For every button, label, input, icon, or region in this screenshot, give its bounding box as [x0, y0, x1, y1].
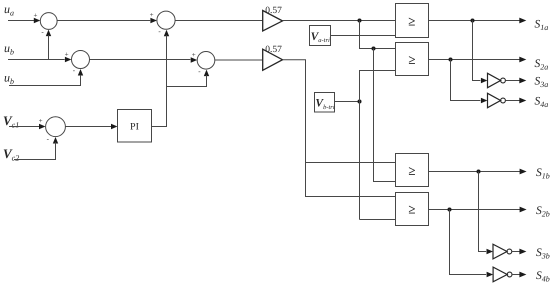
wire PI output branch to summer A4 [167, 75, 207, 86]
junction dot node ref-a2 [372, 47, 376, 51]
arrow to S_4a [519, 98, 526, 104]
summing junction A5 [46, 117, 66, 137]
svg-text:0.57: 0.57 [265, 45, 282, 55]
arrow into inverter N3 [487, 249, 494, 254]
svg-text:S1b: S1b [536, 167, 550, 181]
arrow into summer A5 bottom [53, 137, 58, 144]
svg-text:ub: ub [4, 71, 14, 87]
PI controller block U5 [118, 110, 152, 143]
svg-text:-: - [41, 28, 44, 36]
gain amplifier G2 value 0.57 [263, 49, 283, 70]
summing junction A1 [40, 13, 57, 30]
arrow to S_3a [519, 78, 526, 84]
wire U4 output S_2b [429, 209, 521, 211]
junction dot node ref-a [358, 19, 362, 23]
junction dot on S_2a line [449, 58, 453, 62]
wire summer A1 to summer A3 [57, 20, 150, 22]
wire summer A3 to gain G1 [175, 20, 263, 22]
arrow into inverter N2 [481, 98, 488, 103]
wire N2 output S_4a [505, 100, 519, 102]
svg-text:-: - [158, 28, 161, 36]
arrow to S_1b [520, 169, 527, 175]
inverter N3 bubble [507, 249, 512, 254]
junction dot on S_2b line [448, 208, 452, 212]
junction dot on S_1b line [477, 170, 481, 174]
svg-text:S2b: S2b [536, 205, 550, 219]
wire S_2a drop to inverter N2 [451, 60, 481, 101]
arrow into summer A1 bottom [46, 30, 51, 36]
arrow into summer A3 left [150, 18, 157, 23]
svg-text:S2a: S2a [535, 58, 549, 72]
svg-text:S4b: S4b [536, 270, 550, 284]
comparator U1 [396, 4, 429, 38]
wire u_b2 input run and rise to summer A2 [9, 75, 81, 86]
arrow into summer A3 bottom [164, 30, 169, 37]
wire U2 output S_2a [429, 59, 520, 61]
svg-text:+: + [65, 50, 69, 58]
wire U3 output S_1b [429, 171, 521, 173]
svg-text:PI: PI [130, 122, 139, 133]
wire S_2b drop to inverter N4 [450, 210, 487, 275]
wire V_a-tri to comparator U1 [331, 35, 396, 37]
arrow into PI block [111, 124, 118, 129]
wire N4 output S_4b [512, 274, 520, 276]
arrow into inverter N4 [487, 272, 494, 277]
svg-text:-: - [47, 135, 50, 143]
wire G1 output to comparator U1 [283, 20, 396, 22]
svg-text:≥: ≥ [408, 13, 415, 28]
gain amplifier G1 value 0.57 [263, 11, 283, 32]
inverter N2 bubble [501, 98, 506, 103]
svg-text:-: - [198, 68, 201, 76]
arrow to S_1a [519, 18, 526, 24]
svg-text:+: + [150, 11, 154, 19]
svg-text:S1a: S1a [535, 19, 549, 32]
summing junction A4 [197, 52, 215, 70]
svg-text:+: + [192, 51, 196, 59]
wire u_b branch up to summer A1 [48, 35, 50, 59]
svg-text:≥: ≥ [408, 52, 415, 67]
summing junction A3 [157, 11, 175, 29]
inverter N1 bubble [501, 78, 506, 83]
wire ref-a drop to comparator U3 [374, 49, 396, 182]
arrow to S_2a [519, 57, 526, 63]
inverter N1 [488, 73, 501, 87]
wire V_b-tri output [335, 101, 360, 103]
svg-text:S3b: S3b [536, 247, 550, 261]
junction dot node V_b-tri [358, 100, 362, 104]
carrier source V_a-tri [310, 26, 331, 46]
svg-text:-: - [73, 66, 76, 74]
inverter N4 [493, 267, 507, 282]
arrow into inverter N1 [481, 78, 488, 83]
svg-text:ua: ua [4, 2, 14, 18]
carrier source V_b-tri [315, 93, 335, 113]
wire V_b-tri to comparator U2 and comparator U4 [360, 71, 396, 220]
wire N1 output S_3a [505, 80, 519, 82]
arrow into summer A4 left [191, 57, 198, 62]
wire S_1a drop to inverter N1 [473, 21, 481, 81]
svg-text:+: + [39, 117, 43, 125]
arrow into summer A2 bottom [78, 69, 83, 76]
wire summer A2 to summer A4 [90, 59, 191, 61]
arrow into summer A5 left [39, 124, 46, 129]
wire U1 output S_1a [429, 20, 520, 22]
svg-text:≥: ≥ [408, 163, 415, 178]
wire ref-a drop to comparator U2 [360, 21, 396, 49]
wire u_b input [8, 59, 65, 61]
arrow into summer A1 left [34, 18, 41, 23]
wire summer A5 to PI [65, 126, 111, 128]
wire PI output rising to summer A3 [152, 35, 167, 126]
comparator U3 [396, 154, 429, 187]
inverter N2 [488, 93, 501, 107]
arrow into summer A4 bottom [204, 70, 209, 77]
arrow to S_4b [519, 272, 526, 278]
svg-text:0.57: 0.57 [265, 6, 282, 16]
arrow to S_3b [519, 249, 526, 255]
comparator U2 [396, 43, 429, 76]
svg-text:S4a: S4a [535, 96, 549, 110]
wire u_a input [8, 20, 35, 22]
inverter N3 [493, 244, 507, 259]
comparator U4 [396, 193, 429, 226]
svg-text:≥: ≥ [408, 202, 415, 217]
svg-text:Va-tri: Va-tri [311, 31, 330, 44]
wire S_1b drop to inverter N3 [479, 172, 487, 252]
inverter N4 bubble [507, 272, 512, 277]
wire V_c1 input [9, 126, 39, 128]
summing junction A2 [72, 51, 90, 69]
wire summer A4 to gain G2 [215, 59, 263, 61]
svg-text:Vb-tri: Vb-tri [315, 98, 334, 111]
svg-text:+: + [34, 11, 38, 19]
wire V_c2 input run and rise to summer A5 [14, 142, 56, 159]
wire N3 output S_3b [512, 251, 520, 253]
svg-text:S3a: S3a [535, 76, 549, 90]
wire G2 output down to comparator U4 [283, 60, 396, 197]
arrow into summer A2 left [65, 57, 72, 62]
arrow to S_2b [520, 207, 527, 213]
wire ref-b branch to comparator U3 [306, 162, 396, 164]
svg-text:ub: ub [4, 41, 14, 57]
junction dot on S_1a line [471, 19, 475, 23]
